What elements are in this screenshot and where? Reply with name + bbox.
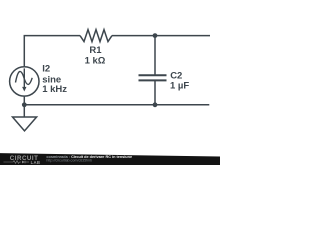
wire: capacitor bottom plate down to bottom rail [154, 80, 156, 104]
current source I2 [10, 67, 39, 96]
node: bottom-left junction [22, 102, 27, 107]
svg-text:LAB: LAB [31, 160, 41, 165]
wire: R1 to top-right open end [112, 35, 210, 37]
svg-text:I2: I2 [42, 64, 50, 75]
wire: junction down to ground [23, 105, 25, 117]
svg-text:1 µF: 1 µF [170, 80, 189, 91]
footer bar [0, 153, 220, 165]
svg-text:1 kHz: 1 kHz [42, 84, 67, 95]
wire: bottom rail [24, 104, 209, 106]
node: top junction at capacitor [153, 33, 158, 38]
node: bottom junction at capacitor [153, 102, 158, 107]
CircuitLab logo [4, 155, 41, 165]
capacitor C2 [139, 75, 167, 80]
svg-text:http://circuitlab.com/c635fmb: http://circuitlab.com/c635fmb [46, 158, 92, 162]
wire: junction down to capacitor top plate [154, 36, 156, 76]
resistor R1 [80, 30, 112, 42]
wire: top-left from source up and right to R1 [24, 36, 80, 67]
svg-text:1 kΩ: 1 kΩ [85, 56, 106, 67]
wire: source bottom to bottom junction [23, 97, 25, 105]
ground [13, 117, 37, 131]
